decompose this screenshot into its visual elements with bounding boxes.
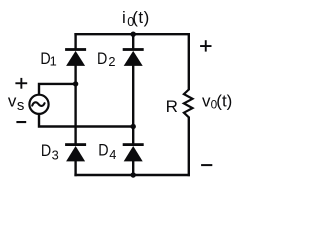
wire: source positive lead to left bridge node <box>39 84 77 95</box>
diode D4 <box>123 143 144 161</box>
svg-text:(t): (t) <box>132 8 150 27</box>
wire: middle branch middle (D2 to D4) <box>132 65 134 145</box>
svg-text:i: i <box>122 8 126 27</box>
source VS: AC sinusoidal voltage source symbol <box>29 95 48 114</box>
wire: left branch middle (D1 to D3) <box>74 65 76 145</box>
svg-text:4: 4 <box>109 147 116 162</box>
svg-text:R: R <box>166 97 178 116</box>
wire: left branch lower (D3 to bottom rail) <box>74 160 76 176</box>
svg-text:s: s <box>17 97 25 114</box>
diode D2 <box>123 48 144 66</box>
wire: middle branch upper (top rail to D2) <box>132 33 134 50</box>
node: middle bridge node (D2/D4, source -) <box>131 124 136 129</box>
wire: left branch upper (top rail to D1) <box>74 33 76 50</box>
label: source + polarity <box>15 78 27 89</box>
diode D1 <box>65 48 86 66</box>
label: source - polarity <box>16 121 26 123</box>
diode D3 <box>65 143 86 161</box>
svg-text:1: 1 <box>50 54 57 69</box>
wire: source negative lead to middle bridge node <box>39 114 134 126</box>
node: left bridge node (D1/D3, source +) <box>73 81 78 86</box>
wire: bottom rail <box>74 174 190 176</box>
node: bottom rail junction at D4 branch <box>131 172 136 177</box>
svg-text:D: D <box>41 141 51 160</box>
wire: right branch upper (top rail to resistor R) <box>188 33 190 90</box>
wire: top rail <box>74 33 190 35</box>
node: i0 junction on top rail <box>131 32 136 37</box>
svg-text:2: 2 <box>108 54 115 69</box>
label: output + polarity (top right) <box>200 40 211 51</box>
svg-text:v: v <box>8 92 17 111</box>
svg-text:3: 3 <box>52 147 59 162</box>
label: output - polarity (bottom right) <box>201 164 212 166</box>
svg-text:D: D <box>98 141 108 160</box>
svg-text:(t): (t) <box>216 91 232 110</box>
wire: right branch lower (resistor R to bottom rail) <box>188 117 190 177</box>
wire: middle branch lower (D4 to bottom rail) <box>132 160 134 176</box>
resistor R <box>184 90 193 118</box>
svg-text:D: D <box>97 49 107 68</box>
